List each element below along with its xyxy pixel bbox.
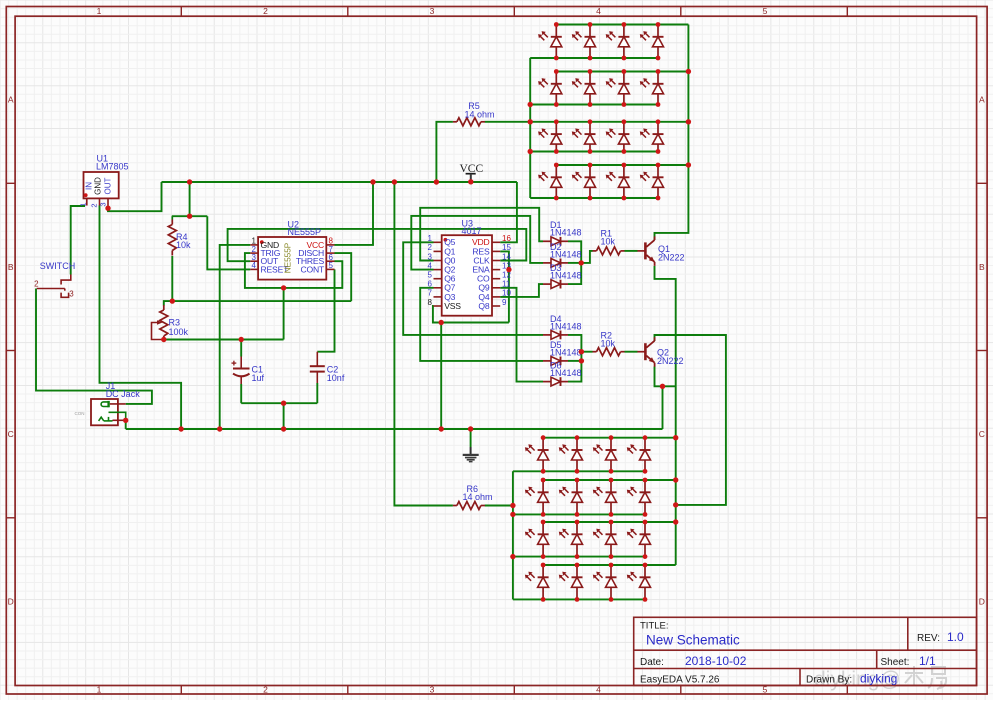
diode D3 1N4148 — [543, 283, 551, 285]
pin dots LED bottom r2c3 — [609, 478, 614, 483]
svg-text:100k: 100k — [169, 327, 189, 337]
svg-text:1N4148: 1N4148 — [550, 347, 582, 357]
svg-text:1: 1 — [97, 685, 102, 695]
junction at 581,263 — [579, 260, 584, 265]
wire ground stem — [470, 429, 472, 447]
svg-text:Date:: Date: — [640, 657, 664, 668]
resistor R3 100k (variable) — [160, 310, 168, 336]
svg-text:15: 15 — [502, 243, 511, 252]
resistor R4 10k — [168, 225, 176, 251]
svg-text:B: B — [979, 262, 985, 272]
top LED array left bus — [529, 58, 531, 198]
svg-text:3: 3 — [430, 6, 435, 16]
wire U3 Q7 to D5 — [420, 288, 543, 361]
wire U2 pin8 VCC — [335, 182, 374, 245]
transistor Q1 2N222 — [644, 242, 647, 259]
svg-text:Drawn By:: Drawn By: — [806, 675, 852, 686]
wire TRIG-THRES loop — [245, 253, 342, 288]
LED bottom array r3c3 — [610, 522, 612, 534]
LED top array r4c4 — [657, 165, 659, 177]
LED bottom array r2c3 — [610, 480, 612, 492]
wire U2 GND down — [220, 245, 251, 429]
pin dots LED top r2c3 — [622, 69, 627, 74]
LED bottom array r4c2 — [576, 565, 578, 577]
svg-text:EasyEDA V5.7.26: EasyEDA V5.7.26 — [640, 675, 720, 686]
pin dots LED bottom r2c1 — [541, 478, 546, 483]
svg-text:1.0: 1.0 — [947, 630, 964, 644]
svg-text:diyking: diyking — [860, 672, 897, 686]
junction at 373,182 — [370, 179, 375, 184]
pin dots LED top r3c3 — [622, 119, 627, 124]
pin dots LED top r1c2 — [588, 22, 593, 27]
junction at 676,505 — [673, 502, 678, 507]
wire cap rail to ground rail — [283, 403, 285, 429]
junction at 220,429 — [217, 426, 222, 431]
svg-text:10k: 10k — [601, 237, 616, 247]
junction at 394,182 — [392, 179, 397, 184]
svg-text:1uf: 1uf — [252, 373, 265, 383]
regulator U1 LM7805 — [84, 172, 119, 198]
junction at 181,429 — [178, 426, 183, 431]
wire R2 to Q2 base — [625, 351, 638, 353]
wire R3 bottom rail — [164, 339, 284, 341]
wire J1 tip to switch — [36, 289, 152, 404]
svg-text:2: 2 — [90, 203, 99, 207]
wire U3 Q2 to D2 — [411, 216, 543, 270]
LED top array r2c1 — [555, 72, 557, 84]
svg-text:3: 3 — [69, 289, 74, 298]
svg-text:Q8: Q8 — [478, 301, 489, 311]
wire cathode bus to R2 — [581, 351, 592, 353]
svg-text:1N4148: 1N4148 — [550, 249, 582, 259]
LED bottom array r3c1 — [542, 522, 544, 534]
wire R1 to Q1 base — [625, 250, 638, 252]
svg-text:2: 2 — [263, 6, 268, 16]
pin dots LED top r4c2 — [588, 163, 593, 168]
svg-text:LM7805: LM7805 — [96, 162, 129, 172]
LED bottom array r1c2 — [576, 438, 578, 450]
LED top array r4c3 — [623, 165, 625, 177]
junction at 284,288 — [281, 285, 286, 290]
pin dots LED top r2c2 — [588, 69, 593, 74]
junction at 172,301 — [170, 298, 175, 303]
resistor R6 14 ohm — [457, 502, 481, 510]
svg-text:TITLE:: TITLE: — [640, 621, 669, 632]
wire U1 OUT to VCC rail — [108, 182, 162, 211]
wire Q1 emitter down to bottom LED array bus — [655, 266, 676, 565]
grid (decorative) — [0, 0, 1, 700]
junction at 676,480 — [673, 477, 678, 482]
diode D2 1N4148 — [543, 262, 551, 264]
wire VCC rail to R5 — [436, 122, 453, 182]
svg-text:GND: GND — [94, 177, 103, 195]
wire U3 Q0 to D1 — [420, 208, 543, 261]
wire C2 bottom — [316, 383, 318, 403]
svg-text:10: 10 — [502, 289, 511, 298]
wire TRIG node to R3 bottom — [283, 288, 285, 340]
LED bottom array r4c3 — [610, 565, 612, 577]
svg-text:B: B — [8, 262, 14, 272]
LED bottom array r3c4 — [644, 522, 646, 534]
junction at 581,352 — [579, 349, 584, 354]
wire U2 OUT to U3 CLK — [228, 229, 527, 261]
svg-text:2: 2 — [428, 243, 433, 252]
LED top array r3c1 — [555, 122, 557, 134]
junction at 688,122 — [686, 119, 691, 124]
svg-text:9: 9 — [502, 298, 507, 307]
svg-text:2018-10-02: 2018-10-02 — [685, 654, 747, 668]
svg-text:5: 5 — [428, 271, 433, 280]
LED bottom array r1c1 — [542, 438, 544, 450]
svg-text:R3: R3 — [169, 318, 181, 328]
svg-text:5: 5 — [329, 261, 334, 270]
svg-text:2N222: 2N222 — [658, 252, 685, 262]
junction at 241,340 — [239, 337, 244, 342]
svg-text:IN: IN — [84, 182, 93, 190]
LED top array r3c3 — [623, 122, 625, 134]
pin dots LED bottom r4c1 — [541, 563, 546, 568]
svg-text:10nf: 10nf — [327, 373, 345, 383]
pin dots LED top r2c1 — [554, 69, 559, 74]
LED bottom array r2c1 — [542, 480, 544, 492]
pin dots LED bottom r4c2 — [575, 563, 580, 568]
LED top array r3c2 — [589, 122, 591, 134]
pin dots LED bottom r3c4 — [643, 520, 648, 525]
wire cathode bus to R1 — [581, 251, 592, 263]
timer U2 NE555P — [258, 237, 326, 280]
svg-text:REV:: REV: — [917, 633, 940, 644]
LED bottom array r3c2 — [576, 522, 578, 534]
wire U3 VDD to VCC rail — [500, 182, 517, 242]
wire RESET drop U2 pin4 — [207, 216, 250, 269]
diode D4 1N4148 — [543, 334, 551, 336]
svg-text:DC Jack: DC Jack — [106, 389, 141, 399]
wire U1 IN to switch — [71, 206, 85, 275]
pin dots LED bottom r4c4 — [643, 563, 648, 568]
wire Q2 collector loop — [655, 335, 726, 505]
LED top array r2c4 — [657, 72, 659, 84]
resistor R5 14 ohm — [457, 118, 481, 126]
pin dots LED top r2c4 — [656, 69, 661, 74]
wire U3 Q4 to D3 — [500, 284, 543, 297]
wire R3 top rail to DISCH — [164, 301, 351, 305]
svg-text:11: 11 — [502, 280, 511, 289]
junction at 688,165 — [686, 162, 691, 167]
LED top array r1c1 — [555, 25, 557, 37]
svg-text:NE555P: NE555P — [284, 242, 293, 273]
wire U3 Q5 to D4 — [403, 242, 543, 335]
svg-text:1N4148: 1N4148 — [550, 368, 582, 378]
junction at 190,216 — [187, 214, 192, 219]
svg-text:8: 8 — [428, 298, 433, 307]
svg-text:OUT: OUT — [103, 177, 112, 194]
bottom LED array rails — [543, 437, 676, 439]
pin dots LED top r4c3 — [622, 163, 627, 168]
svg-text:2: 2 — [34, 280, 39, 289]
svg-text:6: 6 — [428, 280, 433, 289]
wire DISCH U2 pin7 — [335, 253, 352, 301]
wire U3 VSS loop — [433, 306, 509, 323]
LED bottom array r4c4 — [644, 565, 646, 577]
pin dots LED top r4c4 — [656, 163, 661, 168]
junction at 513,514 — [510, 512, 515, 517]
junction at 530,104 — [528, 102, 533, 107]
wire D5 cathode — [568, 360, 581, 362]
pin dots LED bottom r2c4 — [643, 478, 648, 483]
top LED array rails — [556, 24, 688, 26]
LED top array r1c3 — [623, 25, 625, 37]
svg-text:4: 4 — [252, 261, 257, 270]
wire D2 cathode — [568, 262, 581, 264]
wire Q1 collector up to LED array — [655, 25, 689, 241]
LED bottom array r1c4 — [644, 438, 646, 450]
capacitor C2 10nf — [316, 352, 318, 366]
pin dots LED bottom r3c3 — [609, 520, 614, 525]
svg-text:1: 1 — [97, 6, 102, 16]
svg-text:D: D — [8, 596, 14, 606]
LED top array r4c1 — [555, 165, 557, 177]
LED top array r4c2 — [589, 165, 591, 177]
pin dots LED bottom r1c1 — [541, 435, 546, 440]
wire VCC to R6 — [394, 182, 453, 506]
junction at 581,361 — [579, 358, 584, 363]
pin dots LED bottom r2c2 — [575, 478, 580, 483]
junction at 108,208 — [105, 206, 110, 211]
wire R6 to bottom LED array — [485, 505, 513, 507]
pin dots LED top r3c1 — [554, 119, 559, 124]
wire U3 RES to ENA — [500, 251, 509, 322]
LED top array r2c3 — [623, 72, 625, 84]
wire C1-C2 bottom rail — [241, 402, 317, 404]
svg-text:10k: 10k — [176, 240, 191, 250]
svg-text:14 ohm: 14 ohm — [465, 110, 495, 120]
junction at 471,429 — [468, 426, 473, 431]
pin dots LED top r3c4 — [656, 119, 661, 124]
svg-text:NE555P: NE555P — [288, 227, 322, 237]
svg-text:1N4148: 1N4148 — [550, 271, 582, 281]
svg-text:1N4148: 1N4148 — [550, 321, 582, 331]
diode D6 1N4148 — [543, 381, 551, 383]
transistor Q2 2N222 — [644, 343, 647, 360]
wire VSS node to ground rail — [440, 323, 442, 430]
wire R5 to LED array row3 rail — [485, 121, 557, 123]
junction at 284,403 — [281, 401, 286, 406]
svg-text:4017: 4017 — [462, 226, 482, 236]
svg-text:14 ohm: 14 ohm — [463, 492, 493, 502]
pin dots LED bottom r1c4 — [643, 435, 648, 440]
wire VCC rail — [162, 181, 517, 183]
LED top array r1c2 — [589, 25, 591, 37]
wire D4-D6 cathode bus — [568, 335, 581, 382]
wire Q2 emitter — [655, 367, 676, 387]
junction at 676,522 — [673, 519, 678, 524]
pin dots LED bottom r1c3 — [609, 435, 614, 440]
pin dots LED top r1c1 — [554, 22, 559, 27]
wire R4 top link — [172, 215, 208, 217]
svg-text:16: 16 — [502, 234, 511, 243]
wire U3 Q9 to D6 — [500, 288, 543, 382]
junction at 441,429 — [439, 426, 444, 431]
pin dots LED top r1c3 — [622, 22, 627, 27]
svg-text:C: C — [8, 429, 14, 439]
svg-text:1: 1 — [79, 202, 88, 206]
pin dots LED bottom r4c3 — [609, 563, 614, 568]
svg-text:1/1: 1/1 — [919, 654, 936, 668]
LED top array r1c4 — [657, 25, 659, 37]
svg-text:5: 5 — [763, 6, 768, 16]
junction at 441,322 — [439, 320, 444, 325]
wire J1 sleeve to ground rail — [125, 420, 127, 429]
svg-text:14: 14 — [502, 252, 511, 261]
LED bottom array r2c2 — [576, 480, 578, 492]
svg-text:C: C — [979, 429, 985, 439]
pin dots LED top r1c4 — [656, 22, 661, 27]
junction at 509,270 — [506, 267, 511, 272]
svg-text:A: A — [979, 95, 985, 105]
svg-text:10k: 10k — [601, 339, 616, 349]
LED bottom array r1c3 — [610, 438, 612, 450]
counter U3 4017 — [442, 235, 492, 316]
svg-text:2N222: 2N222 — [657, 356, 684, 366]
connector J1 DC Jack — [91, 399, 118, 425]
diode D1 1N4148 — [543, 240, 551, 242]
title block — [634, 617, 977, 685]
svg-text:CONT: CONT — [300, 264, 324, 274]
wire ground rail — [126, 428, 663, 430]
LED bottom array r4c1 — [542, 565, 544, 577]
wire C1 bottom — [240, 384, 242, 403]
LED top array r3c4 — [657, 122, 659, 134]
pin dots LED bottom r1c2 — [575, 435, 580, 440]
LED bottom array r2c4 — [644, 480, 646, 492]
svg-text:7: 7 — [428, 289, 433, 298]
resistor R2 10k — [597, 348, 621, 356]
junction at 513,506 — [510, 503, 515, 508]
svg-text:New Schematic: New Schematic — [646, 633, 740, 648]
junction at 436,182 — [434, 179, 439, 184]
wire R4 bottom to R3 top node — [171, 256, 173, 301]
junction at 471,182 — [468, 179, 473, 184]
svg-text:SWITCH: SWITCH — [40, 261, 76, 271]
junction at 688,72 — [686, 69, 691, 74]
junction at 676,438 — [673, 435, 678, 440]
pin dots LED bottom r3c1 — [541, 520, 546, 525]
wire C1 top — [240, 340, 242, 357]
svg-text:4: 4 — [596, 685, 601, 695]
wire CONT to C2 — [317, 269, 334, 351]
bottom LED array left bus — [512, 471, 514, 599]
svg-text:1N4148: 1N4148 — [550, 228, 582, 238]
svg-text:A: A — [8, 95, 14, 105]
capacitor C1 1uf — [240, 357, 242, 369]
svg-text:D: D — [979, 596, 985, 606]
wire VCC rail to R4/RESET node — [189, 182, 191, 216]
junction at 530,152 — [528, 149, 533, 154]
junction at 530,122 — [528, 119, 533, 124]
svg-text:Sheet:: Sheet: — [881, 657, 910, 668]
svg-text:2: 2 — [263, 685, 268, 695]
svg-text:3: 3 — [430, 685, 435, 695]
wire D1-D3 cathode bus — [568, 241, 581, 284]
svg-text:3: 3 — [99, 202, 108, 206]
resistor R1 10k — [597, 247, 621, 255]
diode D5 1N4148 — [543, 360, 551, 362]
junction at 284,429 — [281, 426, 286, 431]
svg-text:VSS: VSS — [444, 301, 461, 311]
junction at 126,420 — [123, 418, 128, 423]
svg-text:4: 4 — [428, 261, 433, 270]
pin dots LED bottom r3c2 — [575, 520, 580, 525]
wire Q2 emitter to ground rail — [662, 386, 664, 429]
pin dots LED top r4c1 — [554, 163, 559, 168]
svg-text:3: 3 — [428, 252, 433, 261]
wire U1 GND down to ground rail — [100, 206, 182, 430]
junction at 513,557 — [510, 554, 515, 559]
svg-text:1: 1 — [428, 234, 433, 243]
svg-text:4: 4 — [596, 6, 601, 16]
junction at 164,340 — [161, 337, 166, 342]
LED top array r2c2 — [589, 72, 591, 84]
pin dots LED top r3c2 — [588, 119, 593, 124]
ground symbol — [470, 447, 472, 454]
junction at 662,386 — [660, 384, 665, 389]
svg-text:CON: CON — [75, 411, 85, 416]
junction at 190,182 — [187, 179, 192, 184]
